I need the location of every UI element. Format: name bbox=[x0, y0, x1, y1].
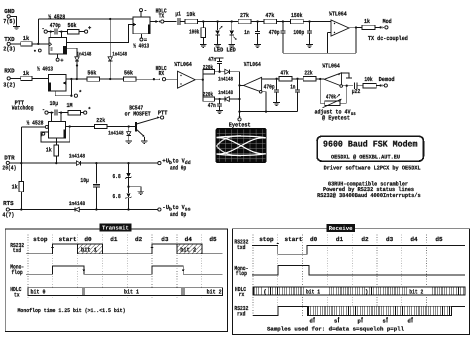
waveform Mono-flop (tx) bbox=[26, 266, 223, 274]
svg-text:470k: 470k bbox=[326, 93, 336, 100]
svg-text:56k: 56k bbox=[124, 70, 133, 77]
wire watchdog tap bbox=[20, 127, 22, 163]
transmit timing box bbox=[5, 229, 227, 332]
svg-text:1n4148: 1n4148 bbox=[69, 200, 86, 207]
ground bbox=[216, 110, 223, 112]
wire bbox=[10, 43, 20, 45]
wire 4013 Q out bbox=[150, 21, 158, 23]
svg-text:¼TL064: ¼TL064 bbox=[174, 61, 192, 68]
svg-text:start: start bbox=[285, 236, 303, 243]
waveform RS232 txd (tx) bbox=[26, 244, 78, 254]
wire bbox=[303, 21, 331, 23]
svg-text:½ 4528: ½ 4528 bbox=[48, 13, 65, 20]
wire bbox=[316, 78, 324, 80]
svg-text:RXD: RXD bbox=[4, 67, 15, 74]
pin 4013 bottom bbox=[140, 34, 142, 38]
wire bbox=[100, 78, 124, 80]
wire output bbox=[195, 79, 203, 81]
svg-text:6.8: 6.8 bbox=[113, 173, 121, 180]
svg-text:txd: txd bbox=[237, 244, 246, 251]
svg-text:d5: d5 bbox=[435, 236, 443, 243]
svg-text:OE5DXL @ OE5XBL.AUT.EU: OE5DXL @ OE5XBL.AUT.EU bbox=[331, 153, 400, 160]
svg-text:7(5): 7(5) bbox=[3, 18, 16, 25]
svg-text:d5: d5 bbox=[209, 236, 217, 243]
svg-text:Eyetest: Eyetest bbox=[229, 122, 251, 129]
grid dotted columns (tx) bbox=[27, 235, 29, 298]
wire bbox=[107, 126, 135, 128]
svg-text:1k: 1k bbox=[364, 18, 370, 25]
svg-text:1k: 1k bbox=[23, 35, 30, 42]
wire bbox=[81, 112, 84, 114]
svg-text:4(7): 4(7) bbox=[2, 212, 14, 219]
svg-text:µ1: µ1 bbox=[175, 11, 181, 18]
wire DTR rail bbox=[10, 162, 158, 164]
svg-text:1n4148: 1n4148 bbox=[112, 50, 127, 57]
svg-text:start: start bbox=[59, 236, 77, 243]
svg-text:bit 0: bit 0 bbox=[31, 289, 46, 296]
wire bbox=[277, 21, 291, 23]
svg-text:Transmit: Transmit bbox=[102, 225, 129, 232]
svg-text:d0: d0 bbox=[84, 236, 92, 243]
wire bbox=[79, 31, 85, 33]
svg-text:Samples used for: d=data s=s: Samples used for: d=data s=squelch p=pll bbox=[267, 325, 405, 332]
svg-text:bit 2: bit 2 bbox=[180, 247, 196, 254]
svg-text:bit 1: bit 1 bbox=[124, 289, 139, 296]
potentiometer 470k (feedback) bbox=[319, 79, 321, 103]
svg-text:3(2): 3(2) bbox=[3, 81, 16, 88]
svg-text:µ22: µ22 bbox=[352, 88, 361, 95]
svg-text:(: ( bbox=[263, 288, 267, 295]
wire bbox=[32, 43, 49, 45]
pin circles 4528 left bbox=[34, 50, 36, 52]
svg-text:stop: stop bbox=[259, 236, 274, 243]
wire bbox=[32, 77, 48, 79]
svg-text:¼TL064: ¼TL064 bbox=[322, 63, 340, 70]
svg-text:22k: 22k bbox=[304, 69, 312, 76]
wire bottom to 1k bbox=[55, 138, 57, 145]
svg-text:1n4148: 1n4148 bbox=[218, 76, 234, 83]
svg-text:GND: GND bbox=[4, 8, 15, 15]
pin + supply bbox=[85, 30, 88, 33]
wire node X vertical bbox=[239, 72, 241, 118]
ground bbox=[13, 25, 20, 27]
svg-text:-: - bbox=[144, 7, 147, 14]
svg-text:10µ: 10µ bbox=[50, 100, 59, 107]
wire + input to gnd bbox=[342, 73, 350, 78]
capacitor u22 bbox=[354, 83, 356, 89]
node Demod bbox=[379, 84, 381, 86]
svg-text:1n4148: 1n4148 bbox=[218, 89, 234, 96]
svg-text:flop: flop bbox=[12, 269, 24, 276]
node Mod bbox=[379, 26, 381, 28]
svg-text:TX dc-coupled: TX dc-coupled bbox=[368, 35, 408, 42]
svg-text:stop: stop bbox=[33, 236, 48, 243]
wire TXD top rail bbox=[38, 18, 133, 20]
ground bbox=[137, 191, 144, 193]
svg-text:1k: 1k bbox=[12, 183, 18, 190]
wire bbox=[251, 21, 264, 23]
wire zener midpoint to ground bbox=[129, 187, 141, 192]
svg-text:1n4148: 1n4148 bbox=[108, 130, 124, 137]
svg-text:TXD: TXD bbox=[4, 36, 15, 43]
ground bbox=[200, 44, 207, 46]
svg-text:1k: 1k bbox=[46, 146, 52, 153]
LED 1 bbox=[217, 22, 219, 31]
ground bbox=[228, 44, 235, 46]
svg-text:1n: 1n bbox=[244, 29, 250, 36]
wire bbox=[375, 26, 380, 28]
svg-text:100p: 100p bbox=[293, 29, 304, 36]
svg-text:Watchdog: Watchdog bbox=[12, 104, 34, 111]
svg-text:tx: tx bbox=[14, 291, 20, 298]
wire 4013 RX bottom loop bbox=[55, 91, 71, 96]
receive timing box bbox=[232, 229, 469, 335]
waveform HDLC tx band bbox=[28, 288, 223, 296]
svg-text:bit 2: bit 2 bbox=[207, 289, 222, 296]
svg-text:d2: d2 bbox=[135, 236, 143, 243]
pin 4528 bottom + bbox=[57, 54, 59, 58]
svg-text:bit 1: bit 1 bbox=[81, 247, 97, 254]
svg-text:470p: 470p bbox=[50, 22, 61, 29]
svg-text:6.8: 6.8 bbox=[113, 193, 121, 200]
grid dotted columns (rx) bbox=[252, 235, 254, 318]
svg-text:Mod: Mod bbox=[383, 18, 392, 25]
svg-text:20(4): 20(4) bbox=[2, 165, 16, 172]
node PTT bbox=[161, 116, 164, 119]
wire bbox=[164, 21, 176, 23]
svg-text:10k: 10k bbox=[364, 76, 372, 83]
wire RX row bbox=[66, 78, 87, 80]
svg-text:1n: 1n bbox=[290, 83, 295, 90]
LED 2 bbox=[231, 22, 233, 31]
node rail junction bbox=[109, 18, 111, 20]
svg-text:d3: d3 bbox=[161, 236, 169, 243]
svg-text:100k: 100k bbox=[189, 28, 199, 35]
svg-text:470p: 470p bbox=[269, 29, 280, 36]
svg-text:txd: txd bbox=[13, 247, 22, 254]
svg-text:d: d bbox=[310, 317, 313, 324]
svg-text:TX: TX bbox=[159, 12, 165, 19]
svg-text:ss: ss bbox=[351, 111, 356, 117]
svg-text:47k: 47k bbox=[280, 69, 288, 76]
ground bbox=[214, 44, 221, 46]
wire bbox=[136, 78, 160, 80]
svg-text:2(3): 2(3) bbox=[3, 46, 16, 53]
svg-text:470p: 470p bbox=[264, 83, 275, 90]
pin 4013 top bbox=[140, 12, 142, 17]
svg-text:½ 4013: ½ 4013 bbox=[37, 65, 53, 72]
svg-text:and 0p: and 0p bbox=[170, 211, 186, 218]
ground bbox=[141, 140, 148, 142]
svg-text:@ Eyetest: @ Eyetest bbox=[322, 114, 350, 121]
wire bbox=[10, 16, 16, 26]
wire bbox=[180, 21, 185, 23]
wire feedback bbox=[328, 32, 332, 34]
svg-text:d1: d1 bbox=[110, 236, 118, 243]
svg-text:27k: 27k bbox=[240, 12, 249, 19]
wire bbox=[229, 98, 239, 100]
eye diagram scope bbox=[216, 128, 266, 162]
svg-text:1M: 1M bbox=[67, 102, 73, 109]
wire RTS rail bbox=[10, 209, 158, 211]
svg-text:*: * bbox=[79, 89, 82, 96]
svg-text:¼TL064: ¼TL064 bbox=[244, 61, 261, 68]
wire bbox=[292, 78, 303, 80]
svg-text:s: s bbox=[334, 317, 337, 324]
wire branch vertical bbox=[202, 72, 204, 99]
ground bbox=[273, 102, 280, 104]
svg-text:22k: 22k bbox=[96, 117, 105, 124]
wire eyetest rail bbox=[240, 111, 298, 113]
pin circle * bbox=[84, 111, 87, 114]
wire diode column 2 bbox=[109, 19, 111, 79]
wire 4528 Q to 4013 clock bbox=[67, 25, 134, 43]
svg-text:rxd: rxd bbox=[237, 311, 246, 318]
wire bbox=[259, 90, 262, 93]
svg-text:RTS: RTS bbox=[3, 200, 14, 207]
svg-text:d2: d2 bbox=[361, 236, 369, 243]
svg-text:s: s bbox=[383, 317, 386, 324]
svg-text:d0: d0 bbox=[310, 236, 318, 243]
svg-text:47n: 47n bbox=[208, 102, 216, 109]
wire bbox=[215, 98, 225, 100]
node TXD junction bbox=[37, 43, 39, 45]
wire pin stubs bbox=[50, 32, 52, 38]
waveform Mono-flop (rx) bbox=[252, 265, 465, 274]
svg-text:d1: d1 bbox=[336, 236, 344, 243]
ground bbox=[306, 44, 313, 46]
svg-text:150k: 150k bbox=[291, 12, 303, 19]
svg-text:RX: RX bbox=[159, 70, 165, 77]
wire pin stubs bbox=[51, 113, 53, 122]
svg-text:*: * bbox=[88, 106, 91, 113]
title box 9600 Baud FSK Modem bbox=[317, 136, 423, 161]
wire clock in bbox=[21, 126, 45, 128]
wire output bbox=[343, 85, 354, 87]
svg-text:d4: d4 bbox=[410, 236, 418, 243]
svg-text:1n4148: 1n4148 bbox=[69, 153, 86, 160]
svg-text:Receive: Receive bbox=[329, 225, 354, 232]
wire op out top bbox=[262, 78, 280, 80]
wire bbox=[376, 85, 379, 87]
svg-text:and 0p: and 0p bbox=[170, 164, 186, 171]
svg-text:or MOSFET: or MOSFET bbox=[125, 111, 151, 118]
wire 4528 Q2 to diode column bbox=[67, 48, 78, 79]
node -Ub bbox=[158, 208, 161, 211]
pin circle bbox=[340, 85, 343, 88]
svg-text:1n4148: 1n4148 bbox=[77, 50, 92, 57]
svg-text:10k: 10k bbox=[186, 11, 195, 18]
ground bbox=[125, 140, 132, 142]
svg-text:Monoflop time 1.25 bit (>1..<1: Monoflop time 1.25 bit (>1..<1.5 bit) bbox=[18, 307, 126, 314]
svg-text:d4: d4 bbox=[185, 236, 193, 243]
flip-flop U2 1/2 4013 bbox=[133, 17, 150, 34]
node Eyetest bbox=[238, 116, 241, 118]
waveform HDLC rx band bbox=[253, 287, 465, 295]
wire bbox=[10, 77, 20, 79]
svg-text:rx: rx bbox=[239, 291, 245, 298]
svg-text:DTR: DTR bbox=[4, 154, 15, 161]
svg-text:LED LED: LED LED bbox=[214, 47, 236, 54]
svg-text:flop: flop bbox=[236, 270, 248, 277]
svg-text:47k: 47k bbox=[265, 12, 274, 19]
svg-text:56k: 56k bbox=[68, 22, 77, 29]
wire watchdog out bbox=[65, 126, 94, 128]
wire retrigger loop bbox=[41, 127, 70, 143]
waveform RS232 rxd bbox=[253, 306, 308, 315]
svg-text:PTT: PTT bbox=[158, 110, 168, 117]
wire bbox=[215, 71, 225, 73]
wire bbox=[357, 85, 363, 87]
wire output bbox=[349, 27, 362, 29]
svg-text:47n: 47n bbox=[208, 56, 216, 63]
svg-text:Demod: Demod bbox=[379, 76, 395, 83]
wire bbox=[37, 19, 39, 44]
waveform RS232 txd (rx) bbox=[252, 245, 465, 254]
svg-text:½ 4528: ½ 4528 bbox=[27, 119, 44, 126]
ground bbox=[254, 44, 261, 46]
svg-text:9600 Baud FSK Modem: 9600 Baud FSK Modem bbox=[323, 140, 418, 150]
svg-text:10µ: 10µ bbox=[80, 177, 89, 184]
node +Ub bbox=[158, 162, 161, 165]
svg-text:bit 2: bit 2 bbox=[409, 288, 423, 295]
svg-text:d: d bbox=[408, 317, 411, 324]
svg-text:): ) bbox=[365, 288, 369, 295]
wire bbox=[229, 71, 239, 73]
svg-text:Driver software L2PCX by OE5DX: Driver software L2PCX by OE5DXL bbox=[324, 165, 421, 172]
svg-text:bit 1: bit 1 bbox=[306, 288, 320, 295]
svg-text:56k: 56k bbox=[87, 70, 96, 77]
svg-text:¼TL064: ¼TL064 bbox=[329, 11, 347, 18]
svg-text:RS232@ 38400Baud 4000Interrupt: RS232@ 38400Baud 4000Interrupts/s bbox=[317, 192, 421, 199]
wire bbox=[198, 21, 239, 23]
svg-text:d3: d3 bbox=[386, 236, 394, 243]
